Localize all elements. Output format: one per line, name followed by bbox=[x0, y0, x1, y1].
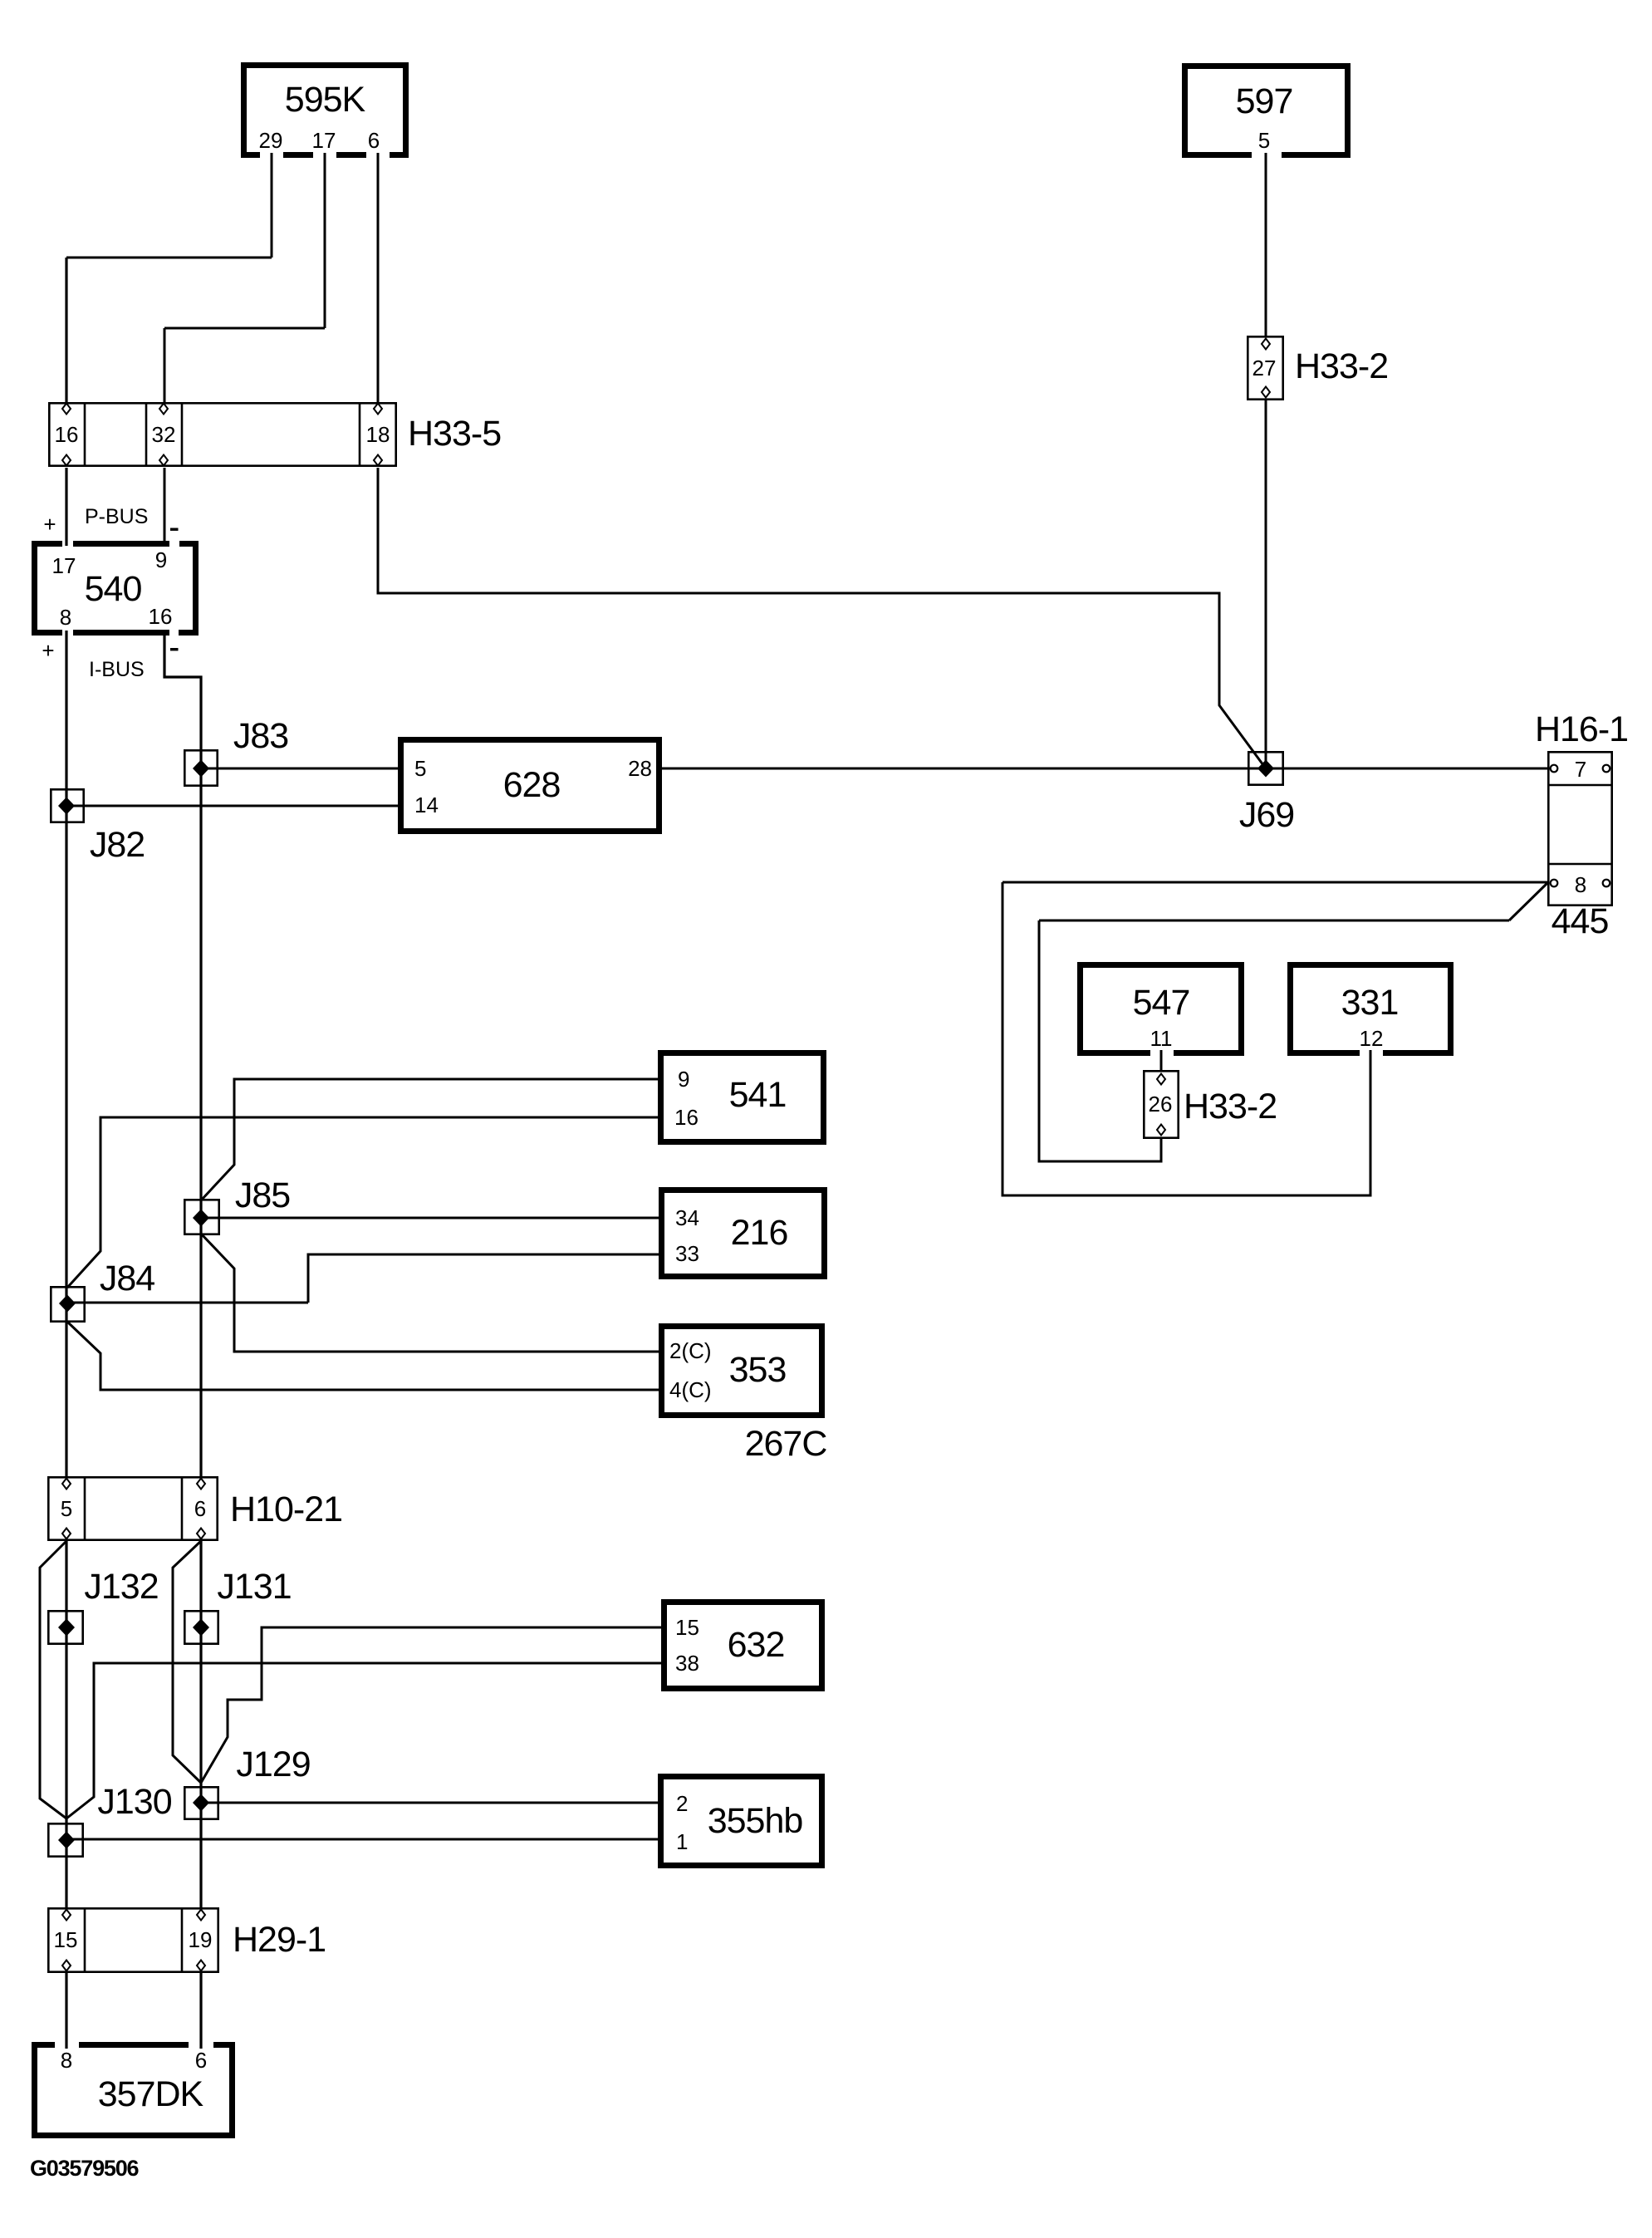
svg-text:G03579506: G03579506 bbox=[30, 2156, 140, 2181]
svg-text:353: 353 bbox=[729, 1350, 787, 1390]
svg-text:597: 597 bbox=[1236, 81, 1293, 121]
svg-text:27: 27 bbox=[1252, 356, 1277, 380]
svg-text:I-BUS: I-BUS bbox=[89, 658, 145, 681]
svg-text:19: 19 bbox=[189, 1927, 213, 1952]
svg-text:+: + bbox=[42, 638, 54, 663]
svg-text:H10-21: H10-21 bbox=[230, 1490, 342, 1529]
svg-text:17: 17 bbox=[52, 553, 76, 578]
svg-text:12: 12 bbox=[1360, 1026, 1384, 1051]
svg-text:18: 18 bbox=[366, 422, 390, 447]
svg-text:9: 9 bbox=[678, 1067, 689, 1092]
svg-text:28: 28 bbox=[628, 756, 652, 781]
svg-text:540: 540 bbox=[85, 569, 142, 609]
svg-text:4(C): 4(C) bbox=[669, 1377, 712, 1402]
svg-text:H33-2: H33-2 bbox=[1184, 1087, 1277, 1126]
svg-text:38: 38 bbox=[675, 1651, 699, 1676]
svg-text:5: 5 bbox=[414, 756, 426, 781]
svg-text:5: 5 bbox=[1258, 128, 1270, 153]
svg-text:J129: J129 bbox=[236, 1745, 310, 1784]
svg-text:8: 8 bbox=[1575, 872, 1586, 897]
svg-text:J85: J85 bbox=[235, 1175, 290, 1215]
svg-text:34: 34 bbox=[675, 1205, 699, 1230]
svg-text:628: 628 bbox=[503, 765, 561, 805]
svg-text:J83: J83 bbox=[233, 716, 288, 756]
svg-text:2: 2 bbox=[676, 1791, 688, 1816]
svg-text:J84: J84 bbox=[100, 1259, 154, 1298]
svg-text:H29-1: H29-1 bbox=[233, 1920, 326, 1960]
svg-text:6: 6 bbox=[195, 2048, 207, 2073]
svg-text:16: 16 bbox=[149, 604, 173, 629]
svg-text:H33-2: H33-2 bbox=[1295, 346, 1388, 386]
svg-text:16: 16 bbox=[674, 1105, 699, 1130]
svg-text:1: 1 bbox=[676, 1829, 688, 1854]
svg-text:H33-5: H33-5 bbox=[408, 414, 501, 454]
svg-text:8: 8 bbox=[61, 2048, 72, 2073]
svg-text:8: 8 bbox=[60, 605, 71, 630]
svg-text:J130: J130 bbox=[97, 1782, 171, 1822]
svg-text:216: 216 bbox=[731, 1213, 788, 1253]
svg-text:11: 11 bbox=[1150, 1026, 1173, 1051]
svg-text:15: 15 bbox=[675, 1615, 699, 1640]
svg-text:6: 6 bbox=[194, 1496, 206, 1521]
svg-text:33: 33 bbox=[675, 1241, 699, 1266]
svg-text:32: 32 bbox=[152, 422, 176, 447]
svg-text:547: 547 bbox=[1133, 983, 1190, 1023]
svg-text:595K: 595K bbox=[285, 80, 366, 120]
svg-text:2(C): 2(C) bbox=[669, 1338, 712, 1363]
svg-text:26: 26 bbox=[1149, 1092, 1173, 1117]
svg-text:9: 9 bbox=[155, 547, 167, 572]
svg-text:J131: J131 bbox=[217, 1567, 291, 1607]
svg-text:14: 14 bbox=[414, 793, 439, 817]
svg-text:P-BUS: P-BUS bbox=[85, 505, 148, 528]
svg-text:17: 17 bbox=[312, 128, 336, 153]
svg-text:357DK: 357DK bbox=[98, 2074, 204, 2114]
svg-text:267C: 267C bbox=[745, 1424, 827, 1464]
svg-text:15: 15 bbox=[54, 1927, 78, 1952]
svg-text:29: 29 bbox=[259, 128, 283, 153]
svg-text:H16-1: H16-1 bbox=[1535, 709, 1628, 749]
svg-text:541: 541 bbox=[729, 1075, 787, 1115]
svg-text:7: 7 bbox=[1575, 757, 1586, 782]
svg-text:+: + bbox=[43, 512, 56, 537]
svg-text:5: 5 bbox=[61, 1496, 72, 1521]
svg-text:331: 331 bbox=[1341, 983, 1399, 1023]
svg-text:355hb: 355hb bbox=[708, 1801, 803, 1841]
svg-text:632: 632 bbox=[728, 1625, 785, 1665]
svg-text:J82: J82 bbox=[90, 825, 145, 865]
svg-text:6: 6 bbox=[368, 128, 380, 153]
svg-text:16: 16 bbox=[55, 422, 79, 447]
svg-text:445: 445 bbox=[1552, 901, 1609, 941]
svg-text:J69: J69 bbox=[1239, 795, 1294, 835]
svg-text:J132: J132 bbox=[84, 1567, 158, 1607]
